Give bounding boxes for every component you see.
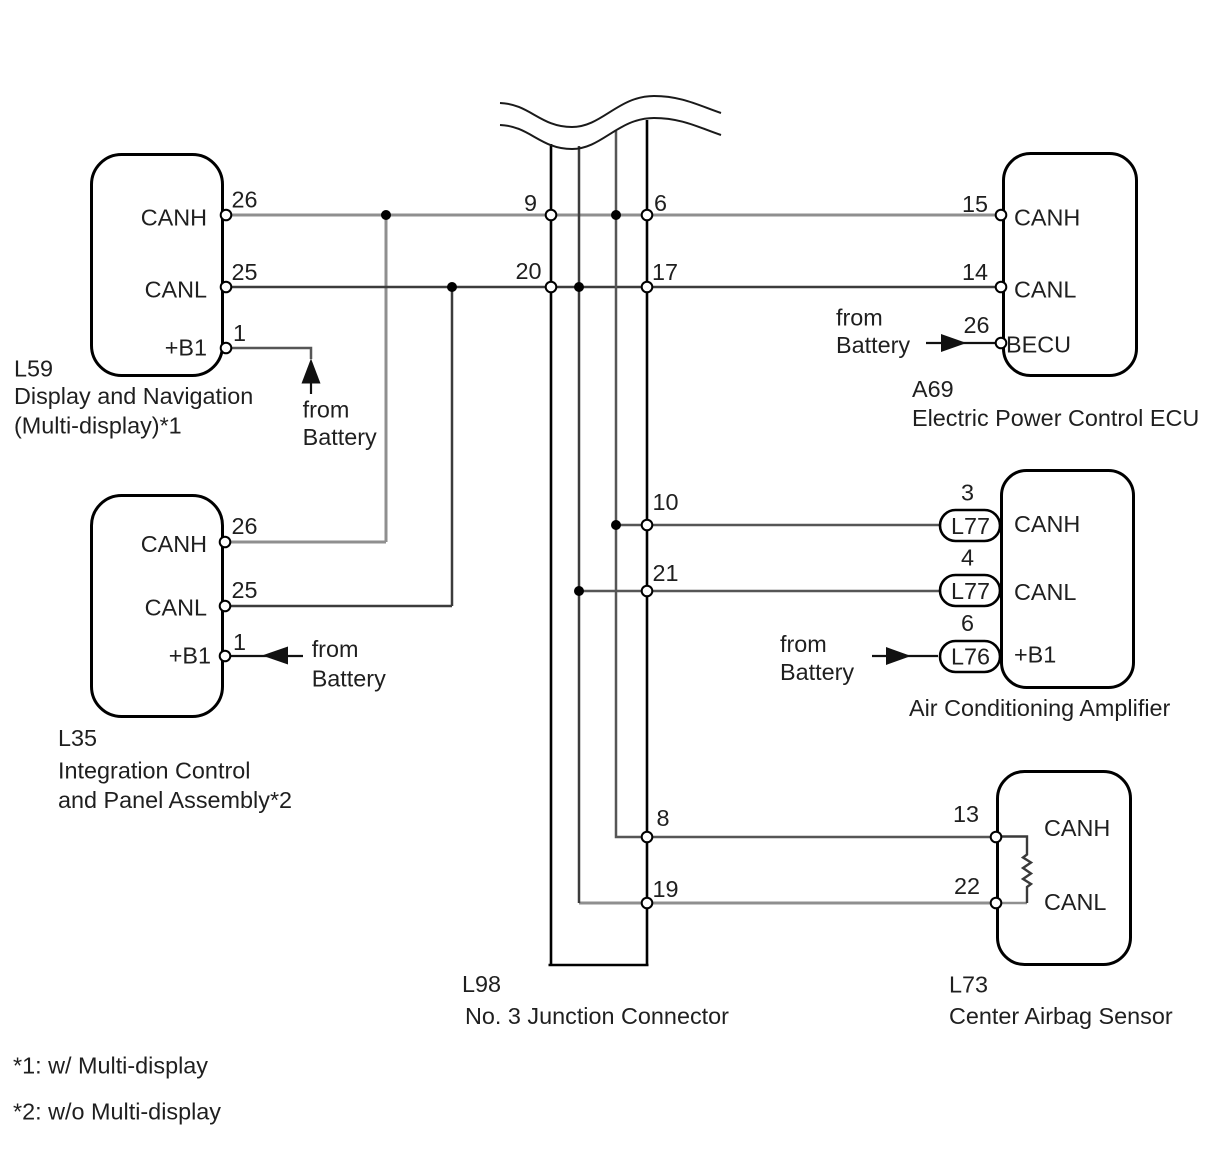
svg-text:Battery: Battery [312,666,386,692]
svg-text:*2: w/o Multi-display: *2: w/o Multi-display [13,1099,221,1125]
svg-text:L73: L73 [949,972,988,998]
svg-text:(Multi-display)*1: (Multi-display)*1 [14,413,182,439]
svg-text:26: 26 [232,187,258,213]
svg-text:15: 15 [962,191,988,217]
svg-text:20: 20 [515,258,541,284]
svg-text:1: 1 [233,629,246,655]
svg-text:6: 6 [961,610,974,636]
svg-text:26: 26 [963,312,989,338]
svg-text:Air Conditioning Amplifier: Air Conditioning Amplifier [909,695,1171,721]
svg-text:A69: A69 [912,376,954,402]
svg-text:CANL: CANL [145,595,207,621]
svg-text:from: from [836,305,883,331]
svg-text:CANL: CANL [1014,277,1076,303]
svg-text:from: from [780,631,827,657]
svg-text:CANH: CANH [1014,511,1080,537]
svg-text:from: from [312,636,359,662]
svg-text:+B1: +B1 [165,335,207,361]
svg-text:CANL: CANL [1044,889,1106,915]
svg-text:Battery: Battery [836,332,910,358]
svg-text:L98: L98 [462,971,501,997]
svg-text:and Panel Assembly*2: and Panel Assembly*2 [58,787,292,813]
svg-text:8: 8 [657,805,670,831]
svg-text:from: from [303,397,350,423]
svg-text:26: 26 [232,513,258,539]
svg-text:Battery: Battery [303,424,377,450]
svg-text:6: 6 [654,190,667,216]
svg-text:BECU: BECU [1006,332,1071,358]
svg-text:25: 25 [232,577,258,603]
svg-text:14: 14 [962,259,988,285]
svg-text:+B1: +B1 [1014,642,1056,668]
svg-text:L35: L35 [58,725,97,751]
svg-text:17: 17 [652,259,678,285]
svg-text:CANL: CANL [1014,579,1076,605]
svg-text:9: 9 [524,190,537,216]
svg-text:CANH: CANH [1044,815,1110,841]
svg-text:25: 25 [232,259,258,285]
svg-text:Battery: Battery [780,659,854,685]
svg-text:22: 22 [954,873,980,899]
svg-text:L59: L59 [14,356,53,382]
svg-text:10: 10 [653,489,679,515]
svg-text:1: 1 [233,320,246,346]
svg-text:No. 3 Junction Connector: No. 3 Junction Connector [465,1003,729,1029]
svg-text:*1: w/ Multi-display: *1: w/ Multi-display [13,1053,208,1079]
svg-text:CANH: CANH [141,531,207,557]
svg-text:Center Airbag Sensor: Center Airbag Sensor [949,1003,1173,1029]
svg-text:Integration Control: Integration Control [58,758,250,784]
svg-text:Display and Navigation: Display and Navigation [14,383,253,409]
svg-text:21: 21 [653,560,679,586]
svg-text:CANH: CANH [1014,205,1080,231]
svg-text:CANL: CANL [145,277,207,303]
svg-text:+B1: +B1 [169,643,211,669]
svg-text:L77: L77 [951,578,990,604]
svg-text:13: 13 [953,801,979,827]
svg-text:Electric Power Control ECU: Electric Power Control ECU [912,405,1199,431]
svg-text:3: 3 [961,480,974,506]
svg-text:19: 19 [653,876,679,902]
svg-text:4: 4 [961,545,974,571]
svg-text:L77: L77 [951,513,990,539]
svg-text:L76: L76 [951,644,990,670]
svg-text:CANH: CANH [141,205,207,231]
